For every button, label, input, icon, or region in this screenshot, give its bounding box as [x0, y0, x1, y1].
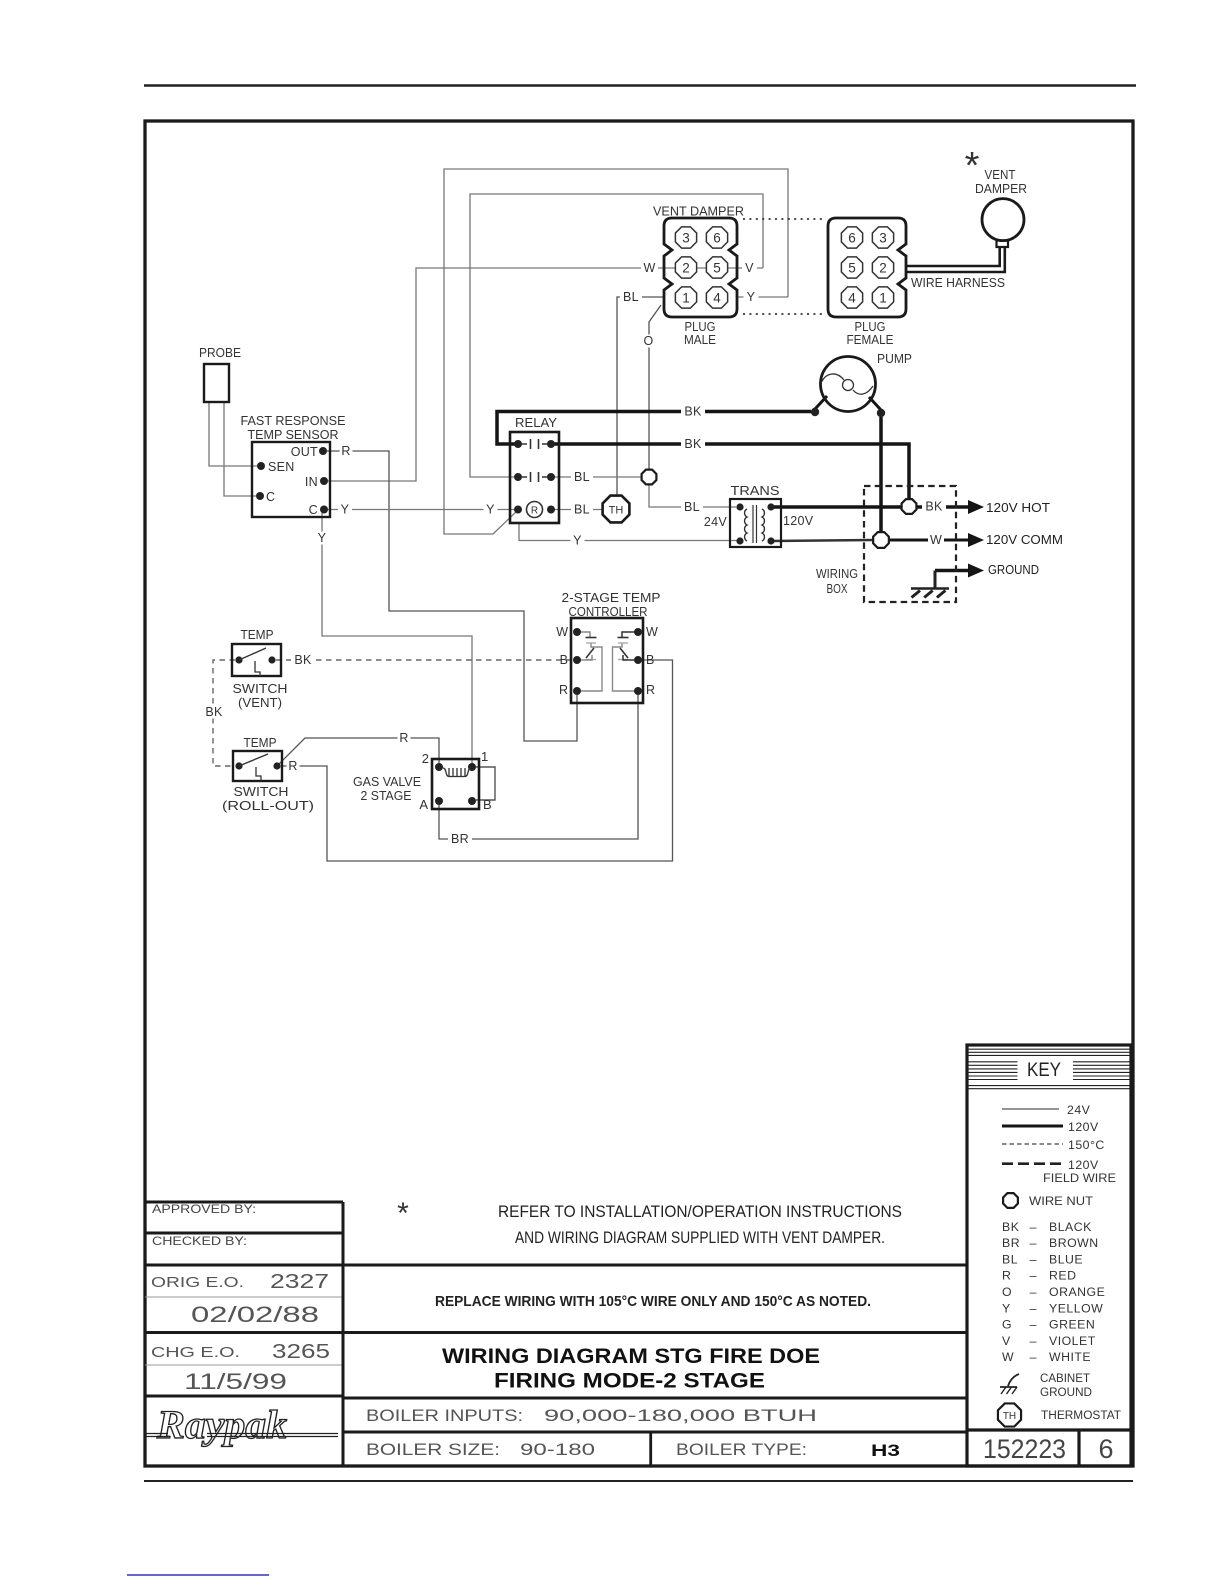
svg-text:R: R — [1002, 1269, 1011, 1283]
svg-text:WIRE HARNESS: WIRE HARNESS — [911, 276, 1005, 290]
svg-text:WHITE: WHITE — [1049, 1350, 1091, 1364]
svg-text:24V: 24V — [704, 515, 728, 529]
svg-text:Y: Y — [747, 290, 756, 304]
svg-text:C: C — [309, 503, 318, 517]
svg-text:R: R — [646, 683, 655, 697]
svg-text:B: B — [646, 653, 654, 667]
svg-text:BOX: BOX — [827, 582, 849, 596]
svg-text:11/5/99: 11/5/99 — [184, 1369, 287, 1394]
svg-text:ORANGE: ORANGE — [1049, 1285, 1105, 1299]
svg-text:GAS VALVE: GAS VALVE — [353, 775, 421, 789]
svg-text:VENT DAMPER: VENT DAMPER — [653, 204, 744, 219]
svg-text:MALE: MALE — [684, 333, 716, 347]
svg-text:3: 3 — [682, 230, 690, 245]
svg-text:*: * — [397, 1197, 409, 1230]
svg-text:–: – — [1030, 1318, 1037, 1332]
svg-text:6: 6 — [1098, 1434, 1113, 1464]
svg-text:REFER TO INSTALLATION/OPERATIO: REFER TO INSTALLATION/OPERATION INSTRUCT… — [498, 1202, 902, 1221]
svg-text:Y: Y — [573, 534, 582, 548]
svg-text:WIRING: WIRING — [816, 567, 858, 581]
svg-text:1: 1 — [879, 290, 887, 305]
svg-text:TH: TH — [1003, 1411, 1016, 1422]
svg-text:BLUE: BLUE — [1049, 1252, 1083, 1266]
svg-text:RED: RED — [1049, 1269, 1076, 1283]
svg-text:BL: BL — [623, 290, 639, 304]
svg-text:FIRING MODE-2 STAGE: FIRING MODE-2 STAGE — [494, 1369, 765, 1393]
svg-text:W: W — [643, 261, 655, 275]
svg-text:V: V — [745, 261, 754, 275]
svg-text:TH: TH — [609, 505, 624, 517]
svg-text:IN: IN — [305, 475, 318, 489]
svg-text:KEY: KEY — [1027, 1060, 1061, 1081]
svg-text:AND WIRING DIAGRAM SUPPLIED WI: AND WIRING DIAGRAM SUPPLIED WITH VENT DA… — [515, 1228, 885, 1247]
svg-text:6: 6 — [848, 230, 856, 245]
svg-text:BK: BK — [925, 500, 943, 514]
svg-text:PROBE: PROBE — [199, 346, 241, 360]
svg-text:–: – — [1030, 1236, 1037, 1250]
svg-text:R: R — [288, 759, 297, 773]
svg-text:BK: BK — [1002, 1220, 1020, 1234]
svg-text:3265: 3265 — [272, 1341, 330, 1363]
svg-text:CABINET: CABINET — [1040, 1373, 1090, 1385]
svg-text:BOILER INPUTS:: BOILER INPUTS: — [366, 1407, 523, 1425]
svg-text:Y: Y — [318, 531, 327, 545]
svg-text:BOILER TYPE:: BOILER TYPE: — [676, 1441, 807, 1459]
svg-text:R: R — [341, 444, 350, 458]
svg-text:2: 2 — [422, 751, 429, 766]
svg-text:W: W — [930, 533, 942, 547]
svg-text:CHECKED BY:: CHECKED BY: — [152, 1234, 247, 1248]
svg-text:152223: 152223 — [983, 1434, 1066, 1464]
svg-text:3: 3 — [879, 230, 887, 245]
svg-text:B: B — [560, 653, 568, 667]
svg-text:6: 6 — [713, 230, 721, 245]
svg-text:Y: Y — [1002, 1301, 1011, 1315]
svg-text:FIELD WIRE: FIELD WIRE — [1043, 1171, 1116, 1185]
svg-text:APPROVED BY:: APPROVED BY: — [152, 1202, 256, 1216]
svg-text:–: – — [1030, 1350, 1037, 1364]
svg-text:150°C: 150°C — [1068, 1138, 1105, 1152]
svg-text:OUT: OUT — [291, 445, 318, 459]
svg-text:(ROLL-OUT): (ROLL-OUT) — [222, 799, 314, 813]
svg-text:PLUG: PLUG — [685, 320, 716, 334]
svg-text:BR: BR — [451, 832, 469, 846]
svg-text:BL: BL — [684, 500, 700, 514]
svg-text:BL: BL — [574, 470, 590, 484]
svg-text:(VENT): (VENT) — [238, 696, 282, 710]
svg-text:24V: 24V — [1067, 1103, 1091, 1117]
svg-text:R: R — [531, 506, 538, 517]
svg-text:R: R — [399, 731, 408, 745]
svg-text:120V: 120V — [1068, 1158, 1099, 1172]
svg-text:120V HOT: 120V HOT — [986, 500, 1050, 515]
svg-text:FEMALE: FEMALE — [847, 333, 894, 347]
svg-text:SEN: SEN — [268, 460, 295, 474]
svg-text:BR: BR — [1002, 1236, 1020, 1250]
svg-text:TRANS: TRANS — [731, 484, 780, 498]
svg-text:BLACK: BLACK — [1049, 1220, 1092, 1234]
svg-text:GREEN: GREEN — [1049, 1318, 1095, 1332]
svg-text:G: G — [1002, 1318, 1012, 1332]
svg-text:2-STAGE TEMP: 2-STAGE TEMP — [562, 591, 661, 605]
svg-text:BK: BK — [684, 405, 702, 419]
svg-text:120V: 120V — [783, 514, 814, 528]
svg-text:R: R — [559, 683, 568, 697]
svg-text:PUMP: PUMP — [877, 352, 912, 366]
svg-text:5: 5 — [848, 260, 856, 275]
svg-text:TEMP SENSOR: TEMP SENSOR — [248, 428, 339, 442]
svg-text:WIRE NUT: WIRE NUT — [1029, 1194, 1094, 1208]
svg-text:TEMP: TEMP — [244, 736, 277, 750]
svg-text:–: – — [1030, 1334, 1037, 1348]
svg-text:YELLOW: YELLOW — [1049, 1301, 1103, 1315]
svg-text:90-180: 90-180 — [520, 1441, 595, 1459]
svg-text:02/02/88: 02/02/88 — [191, 1302, 319, 1327]
svg-text:BROWN: BROWN — [1049, 1236, 1099, 1250]
svg-text:GROUND: GROUND — [1040, 1387, 1092, 1399]
svg-text:–: – — [1030, 1220, 1037, 1234]
svg-text:W: W — [556, 625, 568, 639]
svg-text:2327: 2327 — [270, 1271, 329, 1293]
svg-text:BL: BL — [1002, 1252, 1018, 1266]
svg-text:THERMOSTAT: THERMOSTAT — [1041, 1408, 1121, 1422]
svg-text:BK: BK — [294, 653, 312, 667]
svg-text:FAST RESPONSE: FAST RESPONSE — [241, 414, 346, 428]
svg-text:BOILER SIZE:: BOILER SIZE: — [366, 1441, 500, 1459]
svg-text:O: O — [1002, 1285, 1012, 1299]
svg-text:W: W — [1002, 1350, 1014, 1364]
svg-text:–: – — [1030, 1252, 1037, 1266]
svg-text:–: – — [1030, 1301, 1037, 1315]
svg-text:CONTROLLER: CONTROLLER — [569, 605, 648, 619]
svg-text:Y: Y — [341, 503, 350, 517]
svg-text:H3: H3 — [871, 1441, 900, 1460]
svg-text:TEMP: TEMP — [241, 628, 274, 642]
svg-text:SWITCH: SWITCH — [233, 682, 288, 696]
svg-text:V: V — [1002, 1334, 1011, 1348]
svg-text:4: 4 — [713, 290, 721, 305]
svg-text:1: 1 — [481, 749, 488, 764]
svg-text:WIRING DIAGRAM STG FIRE DOE: WIRING DIAGRAM STG FIRE DOE — [442, 1344, 820, 1368]
svg-text:120V COMM: 120V COMM — [986, 532, 1063, 547]
svg-text:BK: BK — [684, 437, 702, 451]
svg-text:VENT: VENT — [985, 168, 1016, 182]
svg-text:PLUG: PLUG — [855, 320, 886, 334]
svg-text:BL: BL — [574, 503, 590, 517]
svg-text:ORIG E.O.: ORIG E.O. — [151, 1274, 244, 1291]
svg-text:BK: BK — [205, 705, 223, 719]
svg-text:4: 4 — [848, 290, 856, 305]
svg-text:DAMPER: DAMPER — [975, 182, 1027, 196]
svg-text:C: C — [266, 490, 275, 504]
svg-text:–: – — [1030, 1285, 1037, 1299]
svg-text:CHG E.O.: CHG E.O. — [151, 1344, 240, 1361]
svg-text:5: 5 — [713, 260, 721, 275]
svg-text:–: – — [1030, 1269, 1037, 1283]
svg-text:W: W — [646, 625, 658, 639]
svg-text:B: B — [483, 797, 492, 812]
svg-text:120V: 120V — [1068, 1120, 1099, 1134]
svg-text:SWITCH: SWITCH — [234, 785, 289, 799]
svg-text:1: 1 — [682, 290, 690, 305]
svg-text:GROUND: GROUND — [988, 562, 1039, 577]
svg-text:*: * — [965, 145, 980, 187]
svg-text:A: A — [419, 797, 428, 812]
svg-text:2: 2 — [879, 260, 887, 275]
svg-text:Y: Y — [486, 503, 495, 517]
svg-text:2: 2 — [682, 260, 690, 275]
svg-text:Raypak: Raypak — [156, 1402, 287, 1447]
svg-text:VIOLET: VIOLET — [1049, 1334, 1096, 1348]
svg-text:REPLACE WIRING WITH 105°C WIRE: REPLACE WIRING WITH 105°C WIRE ONLY AND … — [435, 1293, 871, 1310]
svg-text:RELAY: RELAY — [515, 416, 558, 430]
svg-text:2 STAGE: 2 STAGE — [361, 789, 412, 803]
svg-text:90,000-180,000 BTUH: 90,000-180,000 BTUH — [544, 1407, 817, 1425]
svg-text:O: O — [643, 334, 653, 348]
